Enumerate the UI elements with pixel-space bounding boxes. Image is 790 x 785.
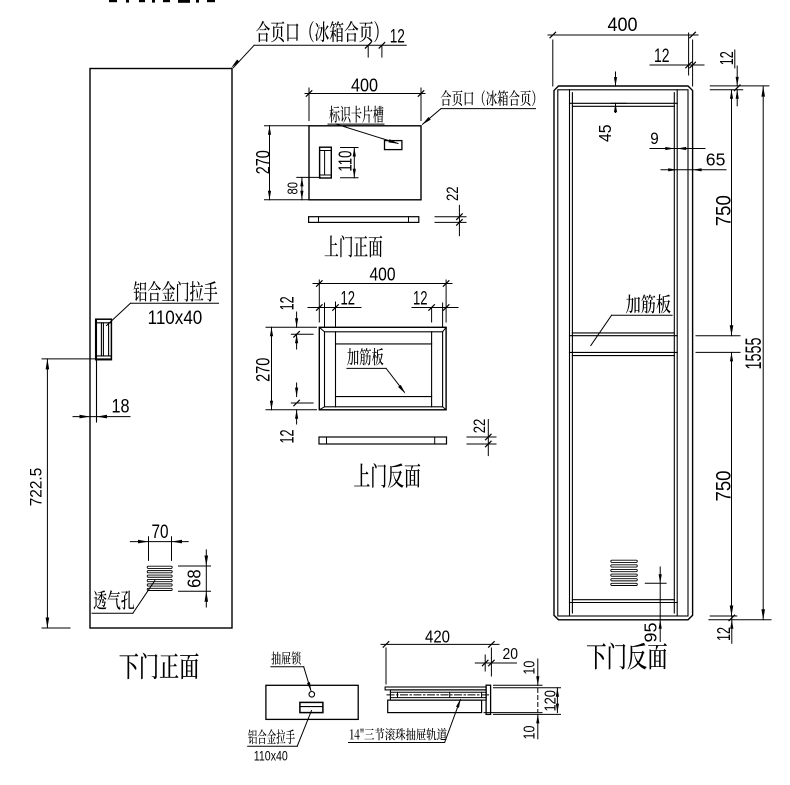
dim 12 right-bottom <box>731 616 733 643</box>
hinge label underline + leader <box>254 44 382 46</box>
svg-text:270: 270 <box>254 358 275 382</box>
dim 45 line <box>615 72 617 86</box>
left door handle inner lines <box>96 322 112 324</box>
svg-text:120: 120 <box>542 690 559 712</box>
dim 68 text <box>183 569 204 588</box>
dim 270 line top panel <box>269 126 271 200</box>
label vent holes <box>94 590 135 609</box>
dim 420 line <box>381 643 499 645</box>
svg-text:110: 110 <box>334 151 355 172</box>
svg-text:65: 65 <box>706 150 726 170</box>
top panel handle outer rect <box>320 147 332 178</box>
dim 110 text <box>334 151 355 172</box>
svg-text:12: 12 <box>413 289 428 310</box>
dim 22 text top panel <box>444 187 462 202</box>
dim 12 left top middle panel <box>308 307 361 309</box>
svg-text:12: 12 <box>341 289 356 310</box>
label rib plate middle <box>347 348 383 365</box>
upper door front panel outline <box>309 126 421 200</box>
dim 400 right extensions <box>552 40 554 86</box>
dim 68 extension lines <box>179 565 211 567</box>
middle bottom strip <box>319 437 447 444</box>
dim 400 line top panel <box>305 93 425 95</box>
dim 270 text middle <box>254 358 275 382</box>
label drawer slide <box>350 728 447 741</box>
drawer handle outer rect <box>300 702 323 712</box>
svg-text:12: 12 <box>654 46 670 67</box>
svg-text:420: 420 <box>425 627 450 647</box>
vent slots right panel <box>611 560 638 562</box>
dim 400 extension lines top panel <box>308 88 310 121</box>
drawer slide centerline <box>387 694 490 696</box>
drawer slide end cap <box>486 685 491 714</box>
dim 45 text <box>595 124 615 142</box>
caption lower door front <box>119 653 198 680</box>
dim 12 left vertical bottom <box>296 383 298 397</box>
drawer front outline <box>266 685 358 719</box>
extension lines right of slide <box>494 684 543 686</box>
svg-text:12: 12 <box>390 26 405 47</box>
upper door back outer rect <box>319 327 446 410</box>
dim 270 extensions middle <box>266 326 317 328</box>
dim 22 middle lines <box>467 436 496 438</box>
svg-text:400: 400 <box>370 263 396 284</box>
dim 420 extensions <box>385 648 387 684</box>
svg-text:110x40: 110x40 <box>254 748 288 763</box>
dim 270 line middle <box>271 327 273 410</box>
dim 22 middle text <box>471 419 489 434</box>
dim 722.5 line <box>46 359 48 628</box>
top panel bottom strip <box>309 217 419 223</box>
upper opening top lines <box>570 102 678 104</box>
hinge label top panel <box>441 90 536 106</box>
svg-text:400: 400 <box>608 15 638 36</box>
dashed connector <box>537 689 539 712</box>
svg-text:18: 18 <box>112 397 130 418</box>
top extension lines right of panel <box>710 85 769 87</box>
drawer handle inner line <box>300 706 323 708</box>
rib plate right underline + leader <box>612 314 673 316</box>
lower door back frame verticals <box>569 90 571 616</box>
svg-text:12: 12 <box>278 430 299 444</box>
left door handle outer rect <box>96 319 112 360</box>
vent slots left door <box>147 566 172 568</box>
lower opening top lines <box>570 351 678 353</box>
card slot rect <box>385 141 402 150</box>
dim 95 line <box>659 567 661 642</box>
lower opening bottom lines <box>572 599 674 601</box>
svg-text:12: 12 <box>717 51 737 65</box>
svg-text:68: 68 <box>183 569 204 588</box>
upper opening bottom lines <box>572 332 674 334</box>
dim 80 text <box>284 182 301 195</box>
svg-text:750: 750 <box>711 470 735 501</box>
dim 750 lower line <box>731 352 733 616</box>
left door handle projection line <box>96 319 98 422</box>
dim 722.5 text <box>28 468 46 507</box>
bottom extension lines right of panel <box>710 615 737 617</box>
dim 270 extension lines top panel <box>265 125 309 127</box>
dim 1555 line <box>762 86 764 620</box>
drawer handle leader <box>248 745 298 747</box>
dim 12 right top middle panel <box>412 307 458 309</box>
dim 70 line <box>130 541 188 543</box>
drawer body <box>388 700 482 713</box>
drawer slide label underline + leader <box>349 742 445 744</box>
drawer lock leader <box>271 666 304 668</box>
dim 9 line <box>650 148 705 150</box>
drawer slide rail <box>390 690 486 700</box>
svg-text:750: 750 <box>711 195 735 226</box>
svg-text:12: 12 <box>278 296 299 310</box>
vent leader line <box>92 612 133 614</box>
svg-text:10: 10 <box>521 660 538 674</box>
upper door back frame verticals <box>335 332 337 407</box>
caption upper door front <box>325 235 383 257</box>
dim 10 bottom <box>537 714 539 738</box>
dim 65 line <box>661 169 726 171</box>
rib plate leader middle <box>347 367 386 369</box>
hinge label left door <box>256 21 378 42</box>
lower door back inner offset rect <box>558 90 688 616</box>
label aluminium door handle <box>134 281 218 302</box>
dim 400 line middle <box>313 283 452 285</box>
svg-text:70: 70 <box>152 522 169 543</box>
svg-text:12: 12 <box>714 627 734 641</box>
lower door back outer outline with chamfered corners <box>554 86 693 620</box>
caption lower door back <box>587 643 667 670</box>
dim 400 right line <box>548 34 698 36</box>
dim 80 extension line <box>297 176 321 178</box>
svg-text:95: 95 <box>641 623 661 643</box>
dim 12 right-top line <box>650 64 704 66</box>
dim 750 upper text <box>711 195 735 226</box>
dim 10 top <box>537 659 539 685</box>
svg-text:110x40: 110x40 <box>148 307 203 329</box>
dim 110 tick lines <box>341 147 358 149</box>
svg-text:1555: 1555 <box>741 338 766 370</box>
top panel handle inner lines <box>320 150 332 152</box>
dim 12 left vertical bottom text <box>278 430 299 444</box>
dim 12 left vertical top text <box>278 296 299 310</box>
svg-text:10: 10 <box>521 725 538 739</box>
upper door back corner chamfers <box>319 327 324 332</box>
dim 750 upper line <box>731 90 733 336</box>
divider extension lines <box>696 335 740 337</box>
handle leader line <box>131 302 219 304</box>
card slot label underline + leader <box>328 123 384 125</box>
dim 95 text <box>641 623 661 643</box>
svg-text:45: 45 <box>595 124 615 142</box>
svg-text:400: 400 <box>351 75 378 96</box>
label aluminium drawer handle <box>248 729 295 744</box>
dim 70 extension lines <box>148 537 150 561</box>
partial title text cut off at top edge <box>109 0 215 3</box>
dim 750 lower text <box>711 470 735 501</box>
drawer slide top flange <box>385 687 486 690</box>
hinge label top panel underline + leader <box>441 108 536 110</box>
dim 68 line <box>205 550 207 607</box>
svg-text:22: 22 <box>471 419 489 434</box>
svg-text:9: 9 <box>650 129 659 148</box>
hinge 12 ticks <box>365 43 371 49</box>
dim 80 line <box>301 177 303 199</box>
dim 12 rotated top-right <box>717 51 737 65</box>
upper door back frame horizontals <box>336 343 432 345</box>
dim 1555 text <box>741 338 766 370</box>
caption upper door back <box>354 463 420 488</box>
upper door back inner rect <box>325 332 443 407</box>
svg-text:22: 22 <box>444 187 462 202</box>
dim 400 extensions middle <box>318 280 320 322</box>
svg-text:270: 270 <box>254 150 275 174</box>
label card slot <box>329 106 383 123</box>
label drawer lock <box>271 651 300 664</box>
dim 22 lines top panel <box>435 216 466 218</box>
svg-text:80: 80 <box>284 182 301 195</box>
dim 270 text top panel <box>254 150 275 174</box>
dim 110 line <box>353 148 355 178</box>
dim 120 <box>556 688 558 713</box>
dim 18 lines <box>73 416 130 418</box>
svg-text:722.5: 722.5 <box>28 468 46 507</box>
dim 722.5 extension lines <box>42 358 111 360</box>
drawer lock circle <box>309 692 315 698</box>
svg-text:20: 20 <box>503 646 519 663</box>
left door panel outline <box>90 69 232 629</box>
dim 12 left vertical top <box>296 312 298 327</box>
label rib plate right <box>626 294 671 313</box>
dim 20 line <box>475 662 516 664</box>
